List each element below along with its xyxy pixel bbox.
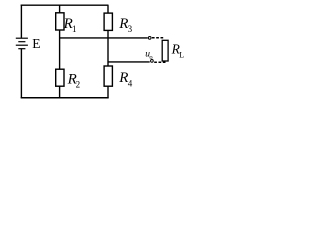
- terminal circle node B: [151, 60, 154, 63]
- label E: [32, 36, 40, 51]
- wire branch1 middle: [59, 30, 61, 69]
- wire node B (R3-R4 junction to output): [108, 61, 150, 63]
- resistor R3: [104, 13, 112, 30]
- label R3: [118, 16, 132, 34]
- wire node A (R1-R2 junction to output): [60, 37, 148, 39]
- wire branch1 bottom lead: [59, 86, 61, 97]
- svg-text:1: 1: [72, 24, 77, 34]
- battery E: [16, 38, 28, 49]
- svg-text:4: 4: [128, 78, 133, 88]
- svg-text:2: 2: [76, 80, 81, 90]
- label R1: [63, 16, 77, 34]
- resistor RL (load): [162, 40, 168, 61]
- wire branch2 bottom lead: [107, 86, 109, 97]
- wire branch2 middle: [107, 30, 109, 66]
- svg-text:o: o: [149, 54, 152, 61]
- wire left rail upper: [20, 5, 22, 38]
- svg-text:L: L: [179, 51, 184, 60]
- wire branch2 top lead: [107, 5, 109, 13]
- label R4: [118, 70, 133, 88]
- wire dashed node A to RL: [152, 37, 164, 39]
- wire dashed node B to RL: [154, 61, 166, 63]
- label R2: [67, 71, 81, 89]
- terminal circle node A: [148, 37, 151, 40]
- resistor R2: [56, 69, 64, 86]
- wire left rail lower: [20, 49, 22, 98]
- svg-text:E: E: [32, 36, 40, 51]
- label RL: [171, 41, 185, 59]
- resistor R1: [56, 13, 64, 30]
- wire branch1 top lead: [59, 5, 61, 13]
- wire bottom rail: [21, 97, 109, 99]
- resistor R4: [104, 66, 112, 86]
- svg-text:3: 3: [128, 24, 133, 34]
- label uo (output voltage): [145, 50, 152, 61]
- wire top rail: [21, 4, 109, 6]
